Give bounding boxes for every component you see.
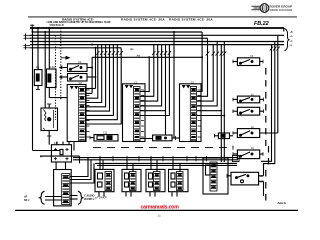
- speaker S3: [233, 107, 264, 115]
- CB left brace: [40, 191, 45, 204]
- speaker S4: [233, 129, 278, 138]
- connector C0 pin strip: [79, 87, 86, 142]
- svg-text:Jb: Jb: [157, 214, 161, 218]
- bus B6: [30, 44, 284, 46]
- svg-text:C2: C2: [191, 80, 195, 84]
- svg-text:+B: +B: [290, 31, 293, 34]
- relay K2: [59, 74, 96, 82]
- junction ticks H: [100, 156, 207, 161]
- wire: A1 pin feed 1: [140, 57, 149, 91]
- speaker S6: [227, 172, 264, 196]
- door unit D1 pin strip: [105, 172, 112, 191]
- C0 pin label dashes: [87, 90, 90, 137]
- wire: C0 down feeds: [56, 142, 58, 145]
- junction dot long wire: [201, 56, 203, 58]
- fuse F2: [47, 69, 68, 98]
- feed terminal B7: [24, 46, 31, 50]
- svg-text:C500 BX14 R: C500 BX14 R: [50, 24, 65, 27]
- wire: C0 pin4 harness: [85, 45, 105, 107]
- wire: D3 feeds: [150, 158, 152, 170]
- speaker S1: [233, 58, 263, 66]
- bus B3: [30, 34, 284, 36]
- title rule: [28, 16, 297, 18]
- amplifier A2 pin strip: [190, 87, 196, 142]
- D2 inner box: [125, 173, 129, 179]
- wire: C3 drop to RB: [220, 111, 222, 162]
- door unit D2 outline: [122, 169, 141, 191]
- wire: A1 pin feed 6: [140, 45, 169, 116]
- svg-text:F.B: F.B: [54, 142, 58, 145]
- wire: TB top feed horizontal: [33, 150, 60, 152]
- fuse F1: [34, 70, 42, 90]
- wire: C0 pin7 harness: [85, 45, 117, 120]
- wire: C0 pin8 harness: [85, 48, 121, 124]
- door unit D4 outline: [169, 169, 189, 191]
- wire: C0 pin1: [85, 92, 92, 94]
- junction dots on buses: [32, 27, 176, 49]
- door unit D3 outline: [146, 169, 165, 191]
- wire: long horizontal H5: [95, 162, 237, 164]
- wire: A1 pin feed 3: [140, 45, 158, 102]
- wire: A2 pin feed 5: [197, 45, 222, 111]
- connector RB inner box: [206, 165, 211, 175]
- bus B7: [30, 47, 121, 49]
- battery terminal on B1: [30, 25, 34, 32]
- connector CB pin strip: [62, 174, 70, 205]
- wire: fuse F1 feed: [37, 28, 39, 70]
- wire: A2 pin feed 3: [197, 45, 214, 102]
- wire: C3 drop to RB 2: [223, 116, 225, 163]
- wire: right vertical v3: [277, 35, 279, 133]
- bus B5: [30, 41, 284, 43]
- wire: C0 pin6 harness: [85, 45, 113, 116]
- harness ticks cluster C2: [152, 51, 171, 55]
- wire: CB left pins: [45, 196, 62, 198]
- arrow marker at relay K1: [66, 56, 71, 60]
- connector C0 polarity arrows: [70, 86, 78, 89]
- harness ticks cluster C1: [96, 51, 123, 55]
- wire: D2 feeds: [126, 160, 128, 170]
- wire: dotted vertical x61: [60, 28, 62, 100]
- svg-text:FB.22: FB.22: [254, 21, 269, 27]
- wire: dotted vertical x55: [55, 35, 57, 120]
- svg-text:RADIO SYSTEM -ICE- 20A: RADIO SYSTEM -ICE- 20A: [169, 17, 213, 21]
- svg-text:7A: 7A: [250, 54, 253, 58]
- wire: TB to connector CB: [55, 162, 57, 170]
- svg-text:WIRING DIAGRAMS: WIRING DIAGRAMS: [270, 9, 293, 12]
- relay K1: [59, 64, 92, 72]
- svg-text:7A: 7A: [78, 60, 81, 64]
- CB right brace: [78, 191, 83, 204]
- logo emblem: [252, 4, 269, 13]
- wire: long horizontal H3: [73, 157, 238, 159]
- logo wordmark: [270, 5, 293, 13]
- junction dot: [91, 67, 93, 69]
- wire: A1 pin feed 5: [140, 45, 166, 111]
- label S6 pins: [260, 175, 263, 184]
- feed terminal B3: [24, 33, 31, 37]
- amplifier A1 outline: [123, 84, 146, 142]
- amplifier A2 polarity arrows: [182, 85, 190, 88]
- wire: C0 pin2 harness: [85, 45, 98, 99]
- speaker S5: [233, 150, 263, 159]
- wire: mid vertical x165.5 lower: [165, 111, 167, 135]
- wire: right vertical v1: [261, 45, 272, 162]
- dashed door boundary: [265, 68, 267, 146]
- amplifier A1 polarity arrows: [125, 85, 133, 88]
- svg-text:Amr.b: Amr.b: [277, 201, 287, 205]
- svg-text:C11: C11: [103, 132, 108, 135]
- wire: staircase into CB: [70, 158, 88, 177]
- svg-text:Aw: Aw: [129, 47, 135, 51]
- H terminal box: [233, 156, 240, 162]
- svg-text:C2: C2: [79, 81, 83, 85]
- connector block C0 outline: [67, 85, 86, 142]
- wire: long horizontal H6: [97, 164, 237, 166]
- svg-text:C2: C2: [134, 80, 138, 84]
- svg-text:1.5A: 1.5A: [50, 65, 56, 69]
- long link wire y57.3: [92, 56, 202, 58]
- door unit D2 pin strip: [130, 172, 137, 191]
- wire: A2 pin feed 2: [197, 38, 208, 96]
- wire: CB right pins: [70, 195, 78, 197]
- wire: dashed link H1: [93, 147, 232, 149]
- amplifier A2 outline: [180, 84, 202, 142]
- bus right brace: [285, 29, 290, 51]
- label NF-1: [23, 196, 30, 203]
- svg-text:+C: +C: [290, 40, 293, 43]
- bus B1 main feed: [30, 27, 284, 29]
- wire: C0 pin3 harness: [85, 45, 101, 103]
- wire: D1 feeds: [99, 158, 101, 170]
- control unit TB: [40, 145, 80, 164]
- mid box M4: [214, 133, 233, 139]
- wire: C0 pin5 harness: [85, 45, 109, 112]
- door unit D4 pin strip: [177, 172, 184, 191]
- wire: long horizontal H4: [73, 159, 238, 161]
- wire: A1 pin feed 2: [140, 45, 154, 97]
- svg-text:ROVER GROUP: ROVER GROUP: [270, 5, 293, 9]
- svg-text:NF-1: NF-1: [24, 199, 30, 202]
- wire: x92 riser: [91, 57, 93, 93]
- svg-text:-G: -G: [290, 44, 293, 47]
- feed terminal B4: [24, 36, 31, 40]
- label C AUDIO: [84, 195, 95, 202]
- svg-text:LF SPKR: LF SPKR: [95, 196, 107, 200]
- door unit D3 pin strip: [154, 172, 161, 191]
- A1 pin label dashes: [141, 90, 144, 137]
- D1 inner box: [98, 173, 103, 179]
- brace labels: [290, 31, 293, 47]
- svg-text:carmanuals.com: carmanuals.com: [141, 205, 180, 211]
- svg-text:LOW LINE RADIO CASSETTE UP TO: LOW LINE RADIO CASSETTE UP TO 2002 MODEL…: [47, 21, 111, 24]
- svg-text:RADIO SYSTEM -ICE- 20A: RADIO SYSTEM -ICE- 20A: [121, 17, 165, 21]
- feed terminal B6: [24, 44, 31, 48]
- mid box M1: [90, 135, 118, 141]
- door unit D1 outline: [95, 169, 114, 191]
- connector RB outline: [203, 158, 228, 194]
- wire: D4 feeds: [172, 160, 174, 170]
- relay K3: [41, 104, 58, 145]
- wire: right vertical v2: [264, 42, 275, 176]
- D4 inner box: [171, 173, 175, 179]
- wire: relay K2 feed from B7: [95, 48, 97, 89]
- svg-text:+A: +A: [290, 35, 293, 38]
- wire: A2 pin feed 1: [197, 32, 203, 92]
- wire: fuse F2 feed: [48, 28, 50, 69]
- wire: A2 pin feed 4: [197, 42, 218, 106]
- wire: A2 pin feed 6: [197, 42, 225, 116]
- header text group: [47, 17, 214, 24]
- svg-text:IN PMT-1: IN PMT-1: [84, 198, 95, 201]
- amplifier A1 pin strip: [134, 87, 140, 142]
- harness ticks cluster C3: [206, 52, 226, 56]
- speaker S2: [233, 96, 264, 103]
- bus B2: [32, 31, 203, 33]
- harness ticks cluster C4: [270, 47, 280, 51]
- wire: left trunk vertical: [32, 28, 34, 151]
- wire: vertical x45 to relay K3: [44, 32, 46, 108]
- bus B4: [30, 37, 208, 39]
- connector RB pin strip: [210, 162, 217, 191]
- A2 pin label dashes: [198, 90, 201, 137]
- bottom border rule: [15, 209, 298, 211]
- wire: A1 pin feed 4: [140, 45, 162, 106]
- D3 inner box: [149, 173, 153, 179]
- mid box M2: [140, 135, 180, 141]
- connector CB outline: [54, 170, 72, 206]
- wire: mid vertical x174: [173, 32, 175, 138]
